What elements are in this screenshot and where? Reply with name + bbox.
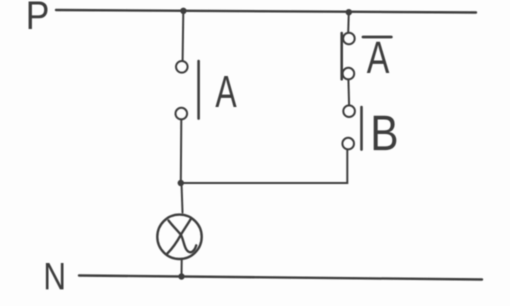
label N	[46, 263, 64, 289]
pushbutton contact A-bar (NC)	[342, 33, 355, 80]
label P	[29, 1, 48, 29]
pushbutton contact B (NO)	[342, 105, 361, 149]
lamp X	[157, 215, 201, 259]
wire: lamp to N rail	[181, 260, 183, 276]
label A	[215, 76, 236, 107]
wire: node J1 to lamp	[182, 183, 183, 213]
P rail	[56, 10, 476, 13]
wire: P rail to contact A	[182, 11, 185, 61]
N rail	[79, 276, 482, 280]
junction node J1	[178, 180, 184, 186]
junction: left branch on P rail	[180, 8, 186, 14]
label A-bar	[363, 37, 391, 73]
pushbutton contact A (NO)	[176, 61, 199, 119]
wire: contact A-bar to contact B	[347, 79, 350, 105]
wire: P rail to contact A-bar	[347, 12, 350, 32]
label B	[374, 116, 397, 150]
junction: right branch on P rail	[346, 9, 352, 15]
wire: contact A to node J1	[180, 119, 183, 183]
wire: node J1 to contact B branch (horizontal)	[181, 150, 347, 183]
junction: lamp branch on N rail	[178, 273, 184, 279]
